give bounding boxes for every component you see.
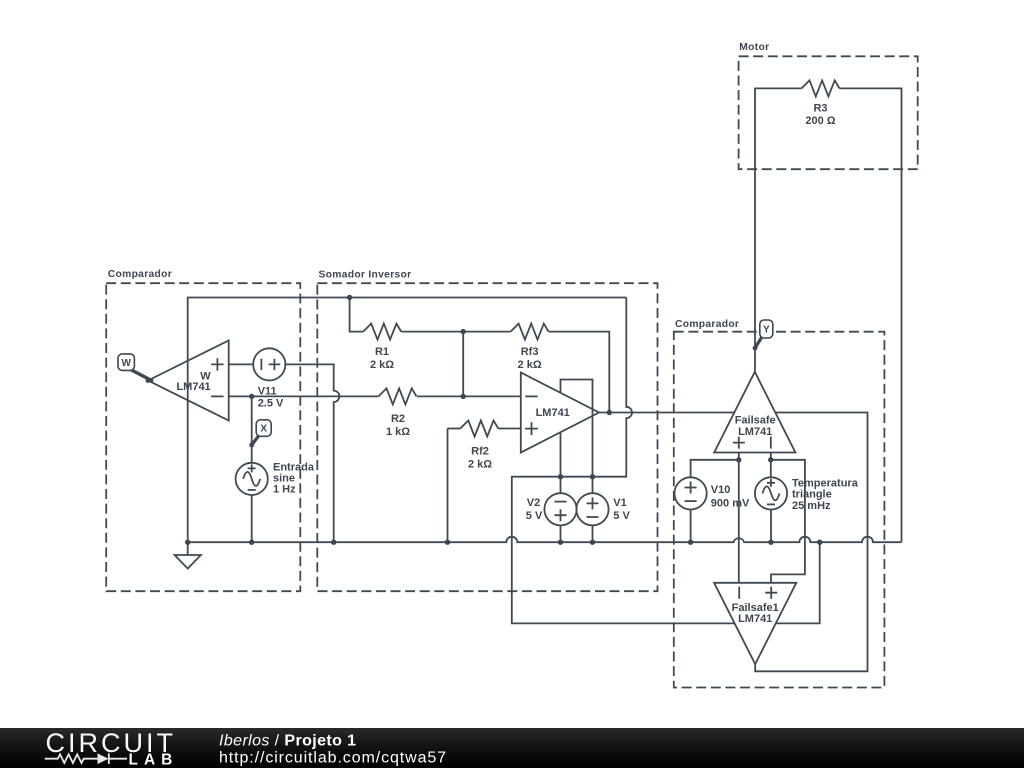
wire feedback junction vertical bbox=[462, 332, 464, 397]
svg-text:R2: R2 bbox=[391, 413, 405, 425]
svg-text:Y: Y bbox=[763, 325, 770, 336]
wire to Rf2 bbox=[448, 428, 461, 430]
resistor R3 bbox=[802, 80, 840, 96]
node rail failsafe1 power junction bbox=[817, 540, 822, 545]
wire branch to V10 bbox=[691, 460, 739, 478]
node inverting input junction bbox=[461, 394, 466, 399]
wire Rf2 to opamp noninverting input bbox=[498, 428, 521, 430]
svg-text:triangle: triangle bbox=[792, 489, 832, 501]
wire opampW noninverting input to V11 bbox=[229, 363, 254, 365]
svg-text:V11: V11 bbox=[258, 386, 277, 398]
flag W bbox=[118, 354, 153, 381]
wire failsafe inverting input to Temperatura bbox=[770, 453, 772, 478]
node rail Rf2 junction bbox=[445, 540, 450, 545]
wire failsafe noninverting input down through rail to failsafe1 inverting input bbox=[738, 453, 740, 583]
svg-text:2.5 V: 2.5 V bbox=[258, 398, 284, 410]
wire ground rail bbox=[188, 537, 902, 543]
wire failsafe1 right power pin to rail bbox=[776, 542, 820, 623]
source V2 bbox=[544, 493, 576, 525]
node flag W attach bbox=[146, 378, 151, 383]
wire R3 right down to rail bbox=[840, 88, 902, 542]
wire Rf3 right down to output node bbox=[549, 332, 610, 413]
svg-text:Temperatura: Temperatura bbox=[792, 477, 859, 489]
wire Entrada bottom to rail bbox=[251, 495, 253, 542]
svg-text:200 Ω: 200 Ω bbox=[805, 115, 835, 127]
svg-text:1 kΩ: 1 kΩ bbox=[386, 426, 410, 438]
box Somador Inversor bbox=[317, 283, 657, 591]
node V11 minus junction bbox=[249, 394, 254, 399]
node rail V1 junction bbox=[590, 540, 595, 545]
source Temperatura bbox=[755, 477, 787, 509]
wire V2 bottom to rail bbox=[560, 525, 562, 542]
source V11 bbox=[253, 348, 285, 380]
svg-text:X: X bbox=[260, 424, 267, 435]
svg-text:LM741: LM741 bbox=[176, 381, 210, 393]
node V1 top junction bbox=[590, 474, 595, 479]
op-amp U1 LM741 somador bbox=[521, 373, 599, 453]
svg-text:2 kΩ: 2 kΩ bbox=[468, 459, 492, 471]
svg-text:25 mHz: 25 mHz bbox=[792, 500, 831, 512]
node rail V11 junction bbox=[331, 540, 336, 545]
node rail Temperatura junction bbox=[768, 540, 773, 545]
svg-text:R1: R1 bbox=[375, 346, 389, 358]
wire branch right down to failsafe1 noninverting input bbox=[771, 460, 805, 583]
op-amp Failsafe1 LM741 bbox=[714, 583, 796, 664]
wire drop to Entrada source bbox=[251, 396, 253, 462]
svg-text:Comparador: Comparador bbox=[108, 269, 172, 280]
svg-text:http://circuitlab.com/cqtwa57: http://circuitlab.com/cqtwa57 bbox=[219, 749, 447, 766]
node failsafe minus input junction bbox=[768, 457, 773, 462]
node rail ground junction bbox=[185, 540, 190, 545]
svg-text:Rf2: Rf2 bbox=[471, 446, 489, 458]
node R1-Rf3 junction bbox=[461, 329, 466, 334]
svg-text:Somador Inversor: Somador Inversor bbox=[319, 270, 412, 281]
junction dots bbox=[146, 295, 823, 545]
node rail V2 junction bbox=[558, 540, 563, 545]
svg-text:2 kΩ: 2 kΩ bbox=[370, 359, 394, 371]
op-amp W LM741 comparador bbox=[148, 341, 229, 421]
svg-text:Failsafe: Failsafe bbox=[735, 415, 776, 427]
svg-text:5 V: 5 V bbox=[526, 510, 543, 522]
wire power bus loop from top wire down around to failsafe1 left power pin bbox=[512, 298, 735, 624]
flag X bbox=[252, 420, 272, 445]
wire opamp V+ power pin bottom to V2 bbox=[560, 432, 562, 493]
svg-text:LAB: LAB bbox=[129, 752, 179, 768]
svg-text:1 Hz: 1 Hz bbox=[273, 484, 296, 496]
ground bbox=[175, 542, 201, 568]
svg-text:2 kΩ: 2 kΩ bbox=[518, 359, 542, 371]
wire V10 bottom to rail bbox=[690, 510, 692, 543]
wire Temperatura bottom to rail bbox=[770, 510, 772, 543]
wire V11 plus down to rail with hop bbox=[285, 364, 339, 542]
svg-text:5 V: 5 V bbox=[613, 510, 630, 522]
node somador input junction bbox=[347, 295, 352, 300]
wire V1 bottom to rail bbox=[592, 525, 594, 542]
wire somador output to failsafe left power pin with hop bbox=[599, 412, 735, 414]
wire somador input branch down to R1 bbox=[350, 298, 364, 332]
source V1 bbox=[576, 493, 608, 525]
resistor Rf2 bbox=[460, 421, 498, 437]
svg-text:900 mV: 900 mV bbox=[711, 497, 750, 509]
resistor Rf3 bbox=[511, 324, 549, 340]
op-amp Failsafe LM741 bbox=[714, 372, 795, 453]
wire opamp V- power pin top routed to V1 bbox=[561, 380, 593, 494]
source Entrada sine bbox=[236, 463, 268, 495]
flag Y bbox=[755, 320, 773, 348]
svg-text:Comparador: Comparador bbox=[675, 319, 739, 330]
wire R1 to Rf3 bbox=[401, 331, 510, 333]
svg-text:Iberlos / Projeto 1: Iberlos / Projeto 1 bbox=[219, 733, 356, 750]
svg-text:V1: V1 bbox=[613, 497, 626, 509]
resistor R1 bbox=[363, 324, 401, 340]
wire R2 to junction to opamp inverting input bbox=[417, 395, 521, 397]
svg-text:Rf3: Rf3 bbox=[521, 346, 539, 358]
svg-text:LM741: LM741 bbox=[738, 613, 772, 625]
logo resistor diode squiggle bbox=[45, 753, 127, 764]
box Comparador left bbox=[106, 283, 300, 591]
svg-text:R3: R3 bbox=[813, 103, 827, 115]
wire top net W to somador input bbox=[188, 298, 627, 543]
footer bar bbox=[0, 728, 1024, 768]
svg-text:LM741: LM741 bbox=[738, 426, 772, 438]
node failsafe plus input junction bbox=[736, 457, 741, 462]
wire inverting net opampW to R2 bbox=[229, 395, 379, 397]
svg-text:Motor: Motor bbox=[739, 42, 769, 53]
node flag Y attach bbox=[753, 346, 758, 351]
node V2 top junction bbox=[558, 474, 563, 479]
resistor R2 bbox=[379, 388, 417, 404]
node flag X attach bbox=[249, 443, 254, 448]
box Motor bbox=[739, 56, 918, 169]
wire motor loop with resistor R3 bbox=[755, 88, 802, 371]
svg-text:V10: V10 bbox=[711, 484, 731, 496]
source V10 bbox=[675, 477, 707, 509]
node rail V10 junction bbox=[688, 540, 693, 545]
svg-text:V2: V2 bbox=[527, 497, 540, 509]
svg-text:LM741: LM741 bbox=[536, 407, 570, 419]
wire Rf2 left leg down to rail bbox=[447, 429, 449, 543]
node rail Entrada junction bbox=[249, 540, 254, 545]
node opamp output junction bbox=[607, 410, 612, 415]
box Comparador right bbox=[674, 332, 885, 688]
svg-text:W: W bbox=[121, 358, 131, 369]
wire failsafe right power pin down to failsafe1 output loop bbox=[755, 413, 867, 672]
